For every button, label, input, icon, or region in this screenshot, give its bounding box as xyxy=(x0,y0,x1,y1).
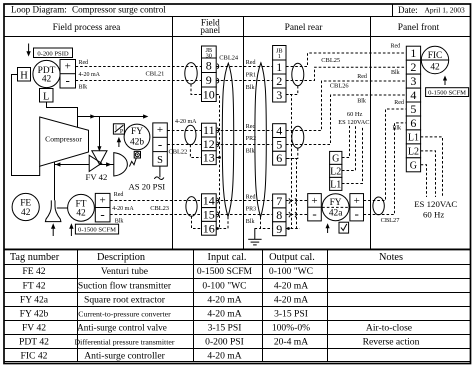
svg-text:PR1: PR1 xyxy=(246,72,256,78)
svg-text:CBL24: CBL24 xyxy=(219,55,239,62)
svg-text:Date:: Date: xyxy=(398,5,418,15)
svg-text:4-20 mA: 4-20 mA xyxy=(207,308,241,319)
svg-text:0-200 PSID: 0-200 PSID xyxy=(37,50,69,57)
svg-text:+: + xyxy=(157,124,163,136)
svg-text:0-1500 SCFM: 0-1500 SCFM xyxy=(197,266,253,277)
svg-text:Compressor: Compressor xyxy=(45,135,82,144)
svg-text:10: 10 xyxy=(203,87,215,101)
svg-text:-: - xyxy=(312,206,316,221)
svg-text:FY 42a: FY 42a xyxy=(20,294,49,305)
svg-text:1: 1 xyxy=(410,46,416,60)
svg-text:FY: FY xyxy=(330,198,342,208)
svg-text:15: 15 xyxy=(203,208,215,222)
svg-text:2: 2 xyxy=(276,74,282,88)
svg-text:FIC: FIC xyxy=(428,51,443,61)
svg-text:42: 42 xyxy=(430,63,440,73)
svg-text:Venturi tube: Venturi tube xyxy=(101,266,148,277)
svg-text:0-200 PSI: 0-200 PSI xyxy=(205,336,244,347)
svg-text:Red: Red xyxy=(246,195,256,201)
svg-text:Loop Diagram:: Loop Diagram: xyxy=(11,5,67,15)
svg-text:3-15 PSI: 3-15 PSI xyxy=(208,322,242,333)
svg-text:April 1, 2003: April 1, 2003 xyxy=(425,6,465,15)
svg-text:L2: L2 xyxy=(330,166,341,177)
svg-text:FE 42: FE 42 xyxy=(22,266,45,277)
svg-text:Output cal.: Output cal. xyxy=(269,252,315,263)
svg-text:20-4 mA: 20-4 mA xyxy=(274,336,308,347)
svg-text:0-1500 SCFM: 0-1500 SCFM xyxy=(428,90,466,97)
svg-text:Red: Red xyxy=(394,100,404,106)
svg-text:Blk: Blk xyxy=(79,84,88,90)
svg-text:Red: Red xyxy=(357,74,367,80)
svg-text:Panel rear: Panel rear xyxy=(285,23,324,33)
svg-text:13: 13 xyxy=(203,151,215,165)
svg-text:6: 6 xyxy=(410,116,416,130)
svg-text:Square root extractor: Square root extractor xyxy=(84,294,166,305)
svg-text:FIC 42: FIC 42 xyxy=(21,350,48,361)
svg-text:FY 42b: FY 42b xyxy=(20,308,49,319)
svg-text:-: - xyxy=(100,207,104,222)
svg-text:42: 42 xyxy=(42,75,52,85)
svg-text:9: 9 xyxy=(276,222,282,236)
svg-text:3-15 PSI: 3-15 PSI xyxy=(274,308,308,319)
svg-text:Tag number: Tag number xyxy=(10,252,60,263)
svg-text:4-20 mA: 4-20 mA xyxy=(79,72,101,78)
svg-text:Blk: Blk xyxy=(246,85,255,91)
svg-text:H: H xyxy=(20,70,28,81)
svg-text:PDT 42: PDT 42 xyxy=(19,336,49,347)
svg-text:Reverse action: Reverse action xyxy=(363,336,420,347)
svg-text:Blk: Blk xyxy=(391,70,400,76)
svg-text:Suction flow transmitter: Suction flow transmitter xyxy=(78,280,172,291)
svg-text:1: 1 xyxy=(276,60,282,74)
svg-text:Blk: Blk xyxy=(392,126,401,132)
svg-text:60 Hz: 60 Hz xyxy=(423,210,444,220)
svg-text:ES 120VAC: ES 120VAC xyxy=(338,119,369,126)
svg-text:I: I xyxy=(115,125,117,131)
svg-text:42: 42 xyxy=(76,209,86,219)
svg-text:4: 4 xyxy=(410,88,416,102)
svg-text:PR2: PR2 xyxy=(246,136,256,142)
svg-text:Current-to-pressure converter: Current-to-pressure converter xyxy=(78,309,171,318)
svg-text:8: 8 xyxy=(206,58,212,72)
svg-text:42b: 42b xyxy=(130,137,144,147)
svg-text:S: S xyxy=(157,155,163,166)
svg-text:5: 5 xyxy=(276,137,282,151)
svg-text:FY: FY xyxy=(131,127,143,137)
svg-text:panel: panel xyxy=(200,25,220,35)
svg-text:-: - xyxy=(355,206,359,221)
svg-text:5: 5 xyxy=(410,102,416,116)
svg-text:Field process area: Field process area xyxy=(53,23,122,33)
svg-text:4-20 mA: 4-20 mA xyxy=(207,294,241,305)
svg-text:FT 42: FT 42 xyxy=(22,280,45,291)
svg-text:3: 3 xyxy=(276,88,282,102)
svg-text:4-20 mA: 4-20 mA xyxy=(274,280,308,291)
svg-text:4: 4 xyxy=(276,124,282,138)
svg-text:CBL26: CBL26 xyxy=(330,82,349,89)
svg-text:Compressor surge control: Compressor surge control xyxy=(72,5,166,15)
svg-text:CBL25: CBL25 xyxy=(321,57,340,64)
svg-text:ES 120VAC: ES 120VAC xyxy=(414,199,457,209)
svg-text:Blk: Blk xyxy=(357,99,366,105)
svg-text:AS 20 PSI: AS 20 PSI xyxy=(129,182,166,192)
svg-text:14: 14 xyxy=(203,194,215,208)
svg-text:CBL21: CBL21 xyxy=(146,71,165,78)
svg-text:PR3: PR3 xyxy=(246,206,256,212)
svg-text:Input cal.: Input cal. xyxy=(208,252,247,263)
svg-text:4-20 mA: 4-20 mA xyxy=(175,119,197,125)
svg-text:Differential pressure transmit: Differential pressure transmitter xyxy=(75,337,175,346)
svg-text:100%-0%: 100%-0% xyxy=(272,322,310,333)
svg-text:7: 7 xyxy=(276,194,282,208)
svg-text:42: 42 xyxy=(21,208,31,218)
svg-text:G: G xyxy=(332,153,339,164)
svg-text:1: 1 xyxy=(278,53,281,60)
svg-text:12: 12 xyxy=(203,137,215,151)
svg-text:L2: L2 xyxy=(408,146,419,157)
svg-text:0-100 "WC: 0-100 "WC xyxy=(202,280,246,291)
svg-text:6: 6 xyxy=(276,151,282,165)
svg-text:L1: L1 xyxy=(330,179,341,190)
svg-text:16: 16 xyxy=(203,221,215,235)
svg-text:Anti-surge controller: Anti-surge controller xyxy=(84,350,165,361)
svg-text:4-20 mA: 4-20 mA xyxy=(207,350,241,361)
svg-text:Red: Red xyxy=(246,124,256,130)
svg-text:L: L xyxy=(43,92,49,103)
svg-text:4-20 mA: 4-20 mA xyxy=(112,206,134,212)
svg-text:8: 8 xyxy=(276,208,282,222)
svg-text:CBL23: CBL23 xyxy=(150,205,169,212)
svg-text:Panel front: Panel front xyxy=(398,22,440,33)
svg-text:Red: Red xyxy=(79,60,89,66)
svg-text:CBL22: CBL22 xyxy=(169,149,188,156)
svg-text:2: 2 xyxy=(410,60,416,74)
svg-text:Air-to-close: Air-to-close xyxy=(366,322,412,333)
svg-text:+: + xyxy=(65,61,71,73)
svg-text:60 Hz: 60 Hz xyxy=(347,111,363,118)
svg-text:Red: Red xyxy=(391,44,401,50)
svg-text:0-100 "WC: 0-100 "WC xyxy=(269,266,313,277)
svg-text:-: - xyxy=(158,136,162,151)
svg-text:Red: Red xyxy=(114,192,124,198)
svg-text:G: G xyxy=(410,160,417,171)
svg-text:3: 3 xyxy=(410,74,416,88)
svg-text:Blk: Blk xyxy=(246,149,255,155)
svg-text:9: 9 xyxy=(206,73,212,87)
svg-text:CBL27: CBL27 xyxy=(381,217,401,224)
svg-text:Description: Description xyxy=(97,252,145,263)
svg-text:0-1500 SCFM: 0-1500 SCFM xyxy=(78,227,116,234)
svg-text:11: 11 xyxy=(203,123,215,137)
svg-text:Blk: Blk xyxy=(115,218,124,224)
svg-text:-: - xyxy=(66,73,70,88)
svg-text:Notes: Notes xyxy=(379,252,403,263)
svg-text:Anti-surge control valve: Anti-surge control valve xyxy=(77,322,167,332)
svg-text:Blk: Blk xyxy=(246,219,255,225)
svg-text:42a: 42a xyxy=(329,209,343,219)
svg-text:+: + xyxy=(99,194,105,206)
svg-text:FV 42: FV 42 xyxy=(22,322,46,333)
svg-text:Red: Red xyxy=(246,60,256,66)
svg-text:FV 42: FV 42 xyxy=(86,172,108,182)
svg-text:4-20 mA: 4-20 mA xyxy=(274,294,308,305)
svg-text:L1: L1 xyxy=(408,132,419,143)
